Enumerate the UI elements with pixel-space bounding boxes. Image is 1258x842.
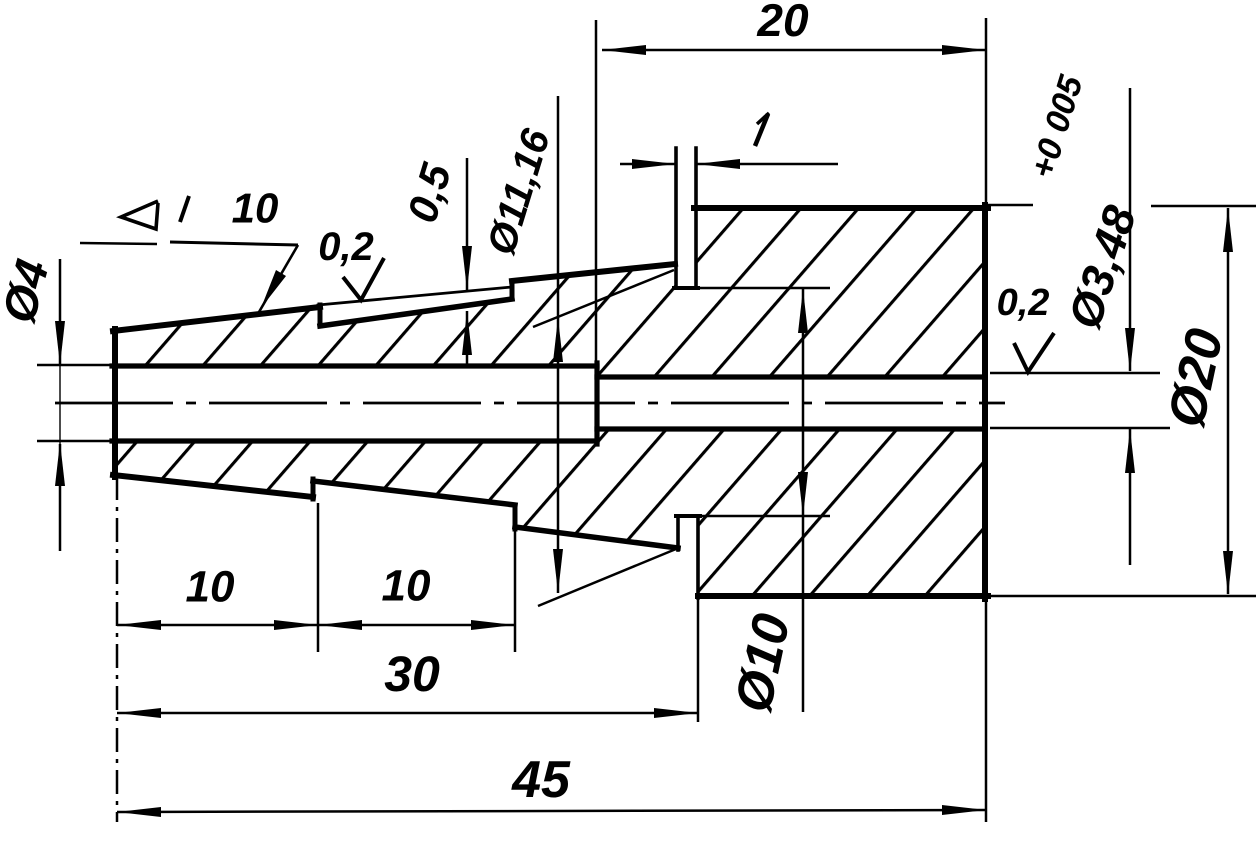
top taper edge right: [512, 264, 675, 281]
arrow o10 down: [798, 472, 808, 516]
dim o348 upper: [1129, 88, 1132, 371]
ext 10 mid: [317, 503, 320, 652]
taper leader: [259, 245, 298, 312]
centerline: [55, 402, 1005, 405]
bore top left: [112, 363, 597, 368]
dim o1116: [557, 96, 560, 593]
ext o20 top right: [1151, 205, 1256, 208]
arrow 45 left: [117, 807, 161, 817]
bottom groove top: [676, 514, 700, 518]
dim o10: [802, 289, 805, 712]
ext o348 bottom: [990, 427, 1170, 430]
arrow o1116 up: [553, 318, 563, 362]
right face: [982, 205, 988, 599]
ext o4 top: [37, 364, 115, 367]
arrow 10b right: [471, 620, 515, 630]
ext 10 right: [514, 509, 517, 652]
arrow o348 up: [1125, 429, 1135, 473]
bore step: [594, 363, 599, 444]
taper one stroke: [180, 196, 189, 222]
bottom slit edge: [313, 481, 515, 505]
ext 30 right: [697, 598, 700, 722]
ext left dashdot: [116, 476, 119, 822]
bottom step: [311, 479, 316, 499]
dim 05 lower: [466, 311, 469, 365]
ext 20 left: [595, 20, 598, 365]
bore bottom right: [597, 426, 985, 431]
arrow 1 right: [696, 159, 740, 169]
dim 20: [602, 49, 986, 52]
dim 30: [117, 712, 698, 715]
hatching upper section: [115, 208, 985, 377]
arrow 30 left: [117, 708, 161, 718]
dim o4 mid: [59, 365, 61, 444]
bottom groove right wall: [696, 516, 700, 598]
ext 45 right bottom: [985, 598, 988, 822]
svg-text:10: 10: [382, 562, 431, 611]
ext o4 bottom: [37, 440, 115, 443]
label 1 stroke: [755, 114, 768, 146]
top slit upper thin edge: [318, 287, 512, 305]
bottom taper edge right: [515, 527, 678, 548]
bottom groove left wall: [676, 516, 680, 550]
outline group: [112, 148, 988, 599]
svg-text:10: 10: [186, 563, 235, 612]
hatching lower section: [115, 429, 985, 596]
arrow taper leader: [261, 270, 286, 308]
top groove left wall: [674, 148, 678, 288]
svg-text:30: 30: [384, 646, 440, 702]
arrow o20 down: [1223, 551, 1233, 595]
svg-text:0,2: 0,2: [997, 282, 1050, 324]
surface mark right: [1014, 333, 1054, 372]
arrow o348 down: [1125, 328, 1135, 372]
arrow 05 down: [462, 246, 472, 290]
bore bottom left: [112, 438, 597, 443]
top taper edge left: [113, 307, 320, 331]
dim 1 right: [696, 163, 838, 166]
top step 2: [510, 281, 515, 299]
left face: [112, 329, 118, 477]
surface mark top: [343, 258, 384, 300]
svg-text:0,2: 0,2: [318, 225, 374, 269]
taper underline a: [80, 243, 157, 244]
dim o4 lower: [59, 444, 62, 551]
arrow 10a right: [274, 620, 318, 630]
dim 1 left: [620, 163, 676, 166]
dim o348 lower: [1129, 429, 1132, 565]
arrow o1116 down: [553, 549, 563, 593]
ext o10 top: [698, 287, 830, 290]
ext o1116 slant bottom: [538, 549, 676, 606]
arrow o4 up: [55, 442, 65, 486]
arrow 1 left: [632, 159, 676, 169]
top slit lower edge: [320, 299, 512, 326]
arrow o4 down: [55, 321, 65, 365]
svg-text:10: 10: [232, 185, 279, 232]
ext o10 bottom: [700, 515, 830, 518]
label 1 flag: [757, 113, 769, 124]
arrow 05 up: [462, 311, 472, 355]
bore top right: [597, 374, 985, 379]
block top edge: [694, 205, 988, 211]
dim 10a10b: [117, 624, 515, 627]
dim o4 upper: [59, 259, 62, 365]
arrow 20 right: [942, 45, 986, 55]
top groove right wall: [694, 148, 698, 288]
bottom taper edge left: [113, 475, 313, 497]
arrow o10 up: [798, 289, 808, 333]
arrow 10a left: [117, 620, 161, 630]
bottom step 2: [513, 505, 518, 529]
arrow 30 right: [654, 708, 698, 718]
svg-text:20: 20: [756, 0, 809, 46]
dim 05 upper: [466, 158, 469, 290]
ext o1116 slant top: [533, 270, 674, 327]
taper triangle symbol: [121, 201, 158, 229]
top groove bottom: [674, 286, 698, 290]
taper underline b: [170, 242, 298, 245]
ext o20 bottom: [985, 595, 1256, 598]
svg-text:45: 45: [511, 751, 571, 809]
arrow o20 up: [1223, 208, 1233, 252]
arrow 45 right: [942, 805, 986, 815]
top step: [318, 305, 323, 326]
arrow 10b left: [318, 620, 362, 630]
ext o348 top: [990, 372, 1160, 375]
block bottom edge: [698, 593, 988, 599]
arrow 20 left: [602, 45, 646, 55]
dim 45: [117, 810, 986, 812]
ext 20/45 right top: [985, 18, 988, 206]
ext o20 top short: [986, 204, 1033, 207]
dim o20: [1227, 208, 1230, 594]
